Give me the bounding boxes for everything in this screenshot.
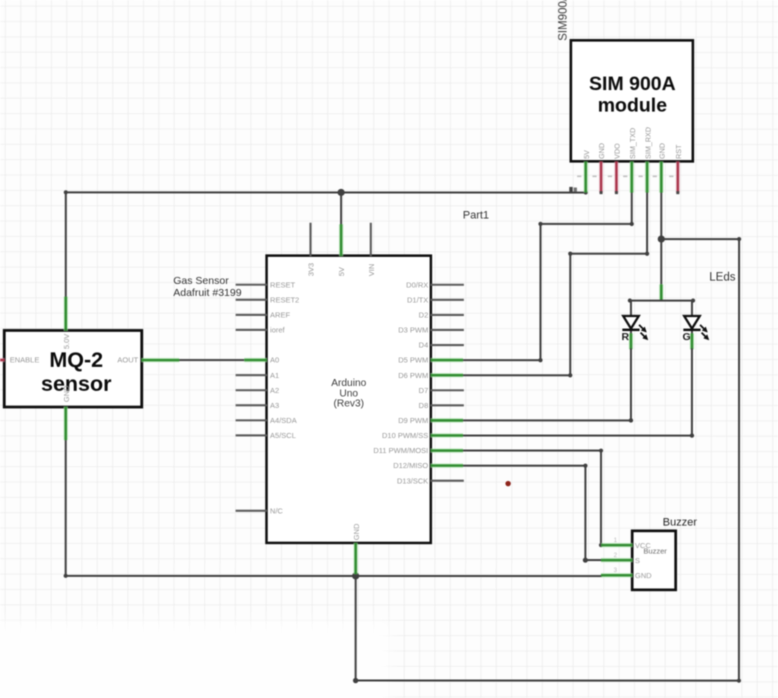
- wire: MQ-2 GND drop: [65, 438, 67, 577]
- svg-text:D3 PWM: D3 PWM: [398, 326, 428, 335]
- wire: 5V net horizontal bus (MQ-2 5.0V to SIM 5V): [66, 191, 586, 193]
- junction: 5V bus / Arduino 5V: [338, 189, 345, 196]
- svg-text:Gas Sensor: Gas Sensor: [173, 275, 229, 287]
- svg-text:D5 PWM: D5 PWM: [398, 356, 428, 365]
- svg-text:D6 PWM: D6 PWM: [398, 371, 428, 380]
- svg-text:RESET: RESET: [270, 280, 295, 289]
- Arduino pin RESET2: [236, 295, 300, 304]
- SIM900A pin SIM_TXD: [623, 128, 637, 193]
- svg-text:GND: GND: [597, 143, 606, 159]
- Arduino pin D9 PWM: [398, 416, 463, 425]
- wire: SIM_TXD to Arduino D5 PWM: [463, 192, 632, 360]
- SIM900A pin GND: [592, 143, 606, 194]
- svg-text:SIM900/: SIM900/: [558, 0, 570, 41]
- wire bendpoint dots: [584, 190, 588, 194]
- note: Gas Sensor Adafruit #3199: [173, 275, 241, 299]
- Buzzer pin VCC: [601, 538, 651, 550]
- Arduino pin D3 PWM: [398, 326, 464, 335]
- MQ-2 pin ENABLE: [0, 356, 39, 365]
- Arduino pin GND (bottom): [352, 523, 361, 574]
- svg-text:A5/SCL: A5/SCL: [270, 431, 296, 440]
- MQ-2 sensor box: [4, 330, 142, 407]
- Arduino pin D12/MISO: [393, 461, 463, 470]
- Arduino pin D1/TX: [407, 295, 464, 304]
- wire: LED anode bus riser: [660, 239, 662, 284]
- SIM900A pin RST: [669, 144, 683, 194]
- svg-text:SIM_RXD: SIM_RXD: [643, 127, 652, 159]
- Arduino pin D4: [419, 341, 464, 350]
- svg-text:RESET2: RESET2: [270, 295, 299, 304]
- svg-text:N/C: N/C: [270, 506, 284, 515]
- MQ-2 pin GND (bottom): [62, 385, 71, 440]
- Buzzer pin GND: [601, 568, 652, 580]
- svg-text:D0/RX: D0/RX: [406, 280, 428, 289]
- Arduino pin D2: [419, 311, 464, 320]
- wire: SIM_RXD to Arduino D6 PWM: [463, 192, 647, 376]
- SIM900A pin 5V: [577, 150, 591, 193]
- svg-text:AOUT: AOUT: [117, 356, 138, 365]
- svg-text:MQ-2: MQ-2: [49, 348, 103, 372]
- wire: LED anode bus horizontal bar: [630, 300, 693, 302]
- svg-text:D1/TX: D1/TX: [407, 295, 428, 304]
- wire: MQ-2 AOUT to Arduino A0: [178, 359, 244, 361]
- svg-text:GND: GND: [635, 571, 652, 580]
- svg-text:S: S: [635, 556, 640, 565]
- svg-text:(Rev3): (Rev3): [333, 399, 364, 410]
- svg-text:VDO: VDO: [613, 143, 622, 159]
- svg-text:Part1: Part1: [463, 209, 489, 221]
- wire: MQ-2 5.0V pin riser: [65, 191, 67, 297]
- svg-text:module: module: [598, 95, 667, 117]
- Arduino pin D6 PWM: [398, 371, 463, 380]
- wire: LED R anode stub: [630, 300, 632, 316]
- SIM900A pin GND: [653, 143, 667, 193]
- svg-text:D9 PWM: D9 PWM: [398, 416, 428, 425]
- svg-text:3V3: 3V3: [307, 263, 316, 276]
- Arduino pin ioref: [236, 326, 286, 335]
- Buzzer pin S: [601, 553, 640, 565]
- Arduino pin 3V3: [307, 223, 316, 277]
- wire: LED R cathode to Arduino D9 PWM: [630, 330, 632, 336]
- svg-text:D12/MISO: D12/MISO: [393, 461, 428, 470]
- wire: Arduino D12/MISO to buzzer S: [463, 466, 602, 560]
- svg-text:RST: RST: [674, 144, 683, 159]
- svg-text:A2: A2: [270, 386, 279, 395]
- wire: net label chip on 5V bus: [569, 187, 572, 192]
- Arduino pin D10 PWM/SS: [382, 431, 463, 440]
- Arduino pin RESET: [236, 280, 296, 289]
- Arduino pin D13/SCK: [397, 476, 464, 485]
- wire: GND bus from MQ-2 to buzzer GND: [66, 575, 602, 577]
- svg-text:Adafruit #3199: Adafruit #3199: [173, 287, 241, 299]
- svg-text:D11 PWM/MOSI: D11 PWM/MOSI: [373, 446, 428, 455]
- svg-text:G: G: [683, 331, 691, 343]
- stray red dot mark: [505, 481, 510, 486]
- Arduino pin A1: [236, 371, 280, 380]
- svg-text:ioref: ioref: [270, 326, 286, 335]
- Arduino pin A2: [236, 386, 280, 395]
- svg-text:sensor: sensor: [41, 372, 112, 396]
- svg-text:A0: A0: [270, 356, 279, 365]
- svg-text:AREF: AREF: [270, 310, 290, 319]
- svg-text:A4/SDA: A4/SDA: [270, 416, 297, 425]
- svg-text:5V: 5V: [337, 267, 346, 276]
- svg-text:GND: GND: [352, 523, 361, 540]
- wire: LED G anode stub: [691, 300, 693, 316]
- Buzzer box: [632, 531, 676, 590]
- Arduino pin VIN: [367, 223, 376, 277]
- svg-text:ENABLE: ENABLE: [10, 356, 40, 365]
- junction: D12 wire corner: [583, 558, 588, 563]
- MQ-2 pin 5.0V (top): [62, 297, 71, 350]
- Arduino pin AREF: [236, 310, 291, 319]
- Arduino pin D11 PWM/MOSI: [373, 446, 463, 455]
- junction: GND bus / Arduino GND: [352, 572, 359, 579]
- svg-text:Buzzer: Buzzer: [663, 516, 698, 528]
- Arduino pin D5 PWM: [398, 356, 463, 365]
- svg-text:D8: D8: [419, 401, 429, 410]
- wire: LED G cathode to Arduino D10 PWM/SS: [691, 330, 693, 336]
- junction: bottom-left corner of GND loop: [353, 678, 358, 683]
- svg-text:GND: GND: [658, 143, 667, 159]
- Arduino pin 5V: [337, 224, 346, 276]
- svg-text:D10 PWM/SS: D10 PWM/SS: [382, 431, 428, 440]
- wire: Arduino 5V drop from bus: [340, 192, 342, 225]
- Arduino pin D8: [419, 401, 464, 410]
- faded blank area bottom-left: [0, 622, 390, 698]
- svg-text:5V: 5V: [582, 150, 591, 159]
- svg-text:SIM 900A: SIM 900A: [589, 73, 676, 95]
- MQ-2 pin AOUT: [117, 356, 179, 365]
- svg-text:SIM_TXD: SIM_TXD: [628, 128, 637, 159]
- LED G: [683, 316, 709, 343]
- svg-text:5.0V: 5.0V: [62, 334, 71, 349]
- junction: LED anode net: [658, 235, 665, 242]
- svg-text:VIN: VIN: [367, 264, 376, 277]
- SIM 900A module U-module box: [571, 40, 693, 161]
- wire: GND loop right side (junction to bottom rail): [356, 239, 739, 681]
- Arduino pin A0: [244, 356, 279, 365]
- Arduino Uno U1 box: [266, 256, 430, 543]
- svg-text:GND: GND: [62, 385, 71, 402]
- wire: Arduino D11 PWM/MOSI to buzzer VCC: [463, 451, 601, 546]
- Arduino pin A3: [236, 401, 280, 410]
- Arduino pin D7: [419, 386, 464, 395]
- svg-text:LEds: LEds: [709, 272, 735, 284]
- svg-text:A1: A1: [270, 371, 279, 380]
- Arduino pin N/C: [236, 506, 284, 515]
- svg-text:D2: D2: [419, 311, 429, 320]
- svg-text:A3: A3: [270, 401, 279, 410]
- svg-text:D13/SCK: D13/SCK: [397, 476, 428, 485]
- Arduino pin A4/SDA: [236, 416, 297, 425]
- SIM900A pin VDO: [608, 143, 622, 194]
- SIM900A pin SIM_RXD: [639, 127, 653, 193]
- wire: SIM GND down to LED junction: [660, 192, 662, 239]
- svg-text:D4: D4: [419, 341, 429, 350]
- LED R: [622, 316, 648, 343]
- svg-text:VCC: VCC: [635, 541, 651, 550]
- Arduino pin A5/SCL: [236, 431, 296, 440]
- svg-text:R: R: [622, 331, 630, 343]
- svg-text:D7: D7: [419, 386, 429, 395]
- Arduino pin D0/RX: [406, 280, 464, 289]
